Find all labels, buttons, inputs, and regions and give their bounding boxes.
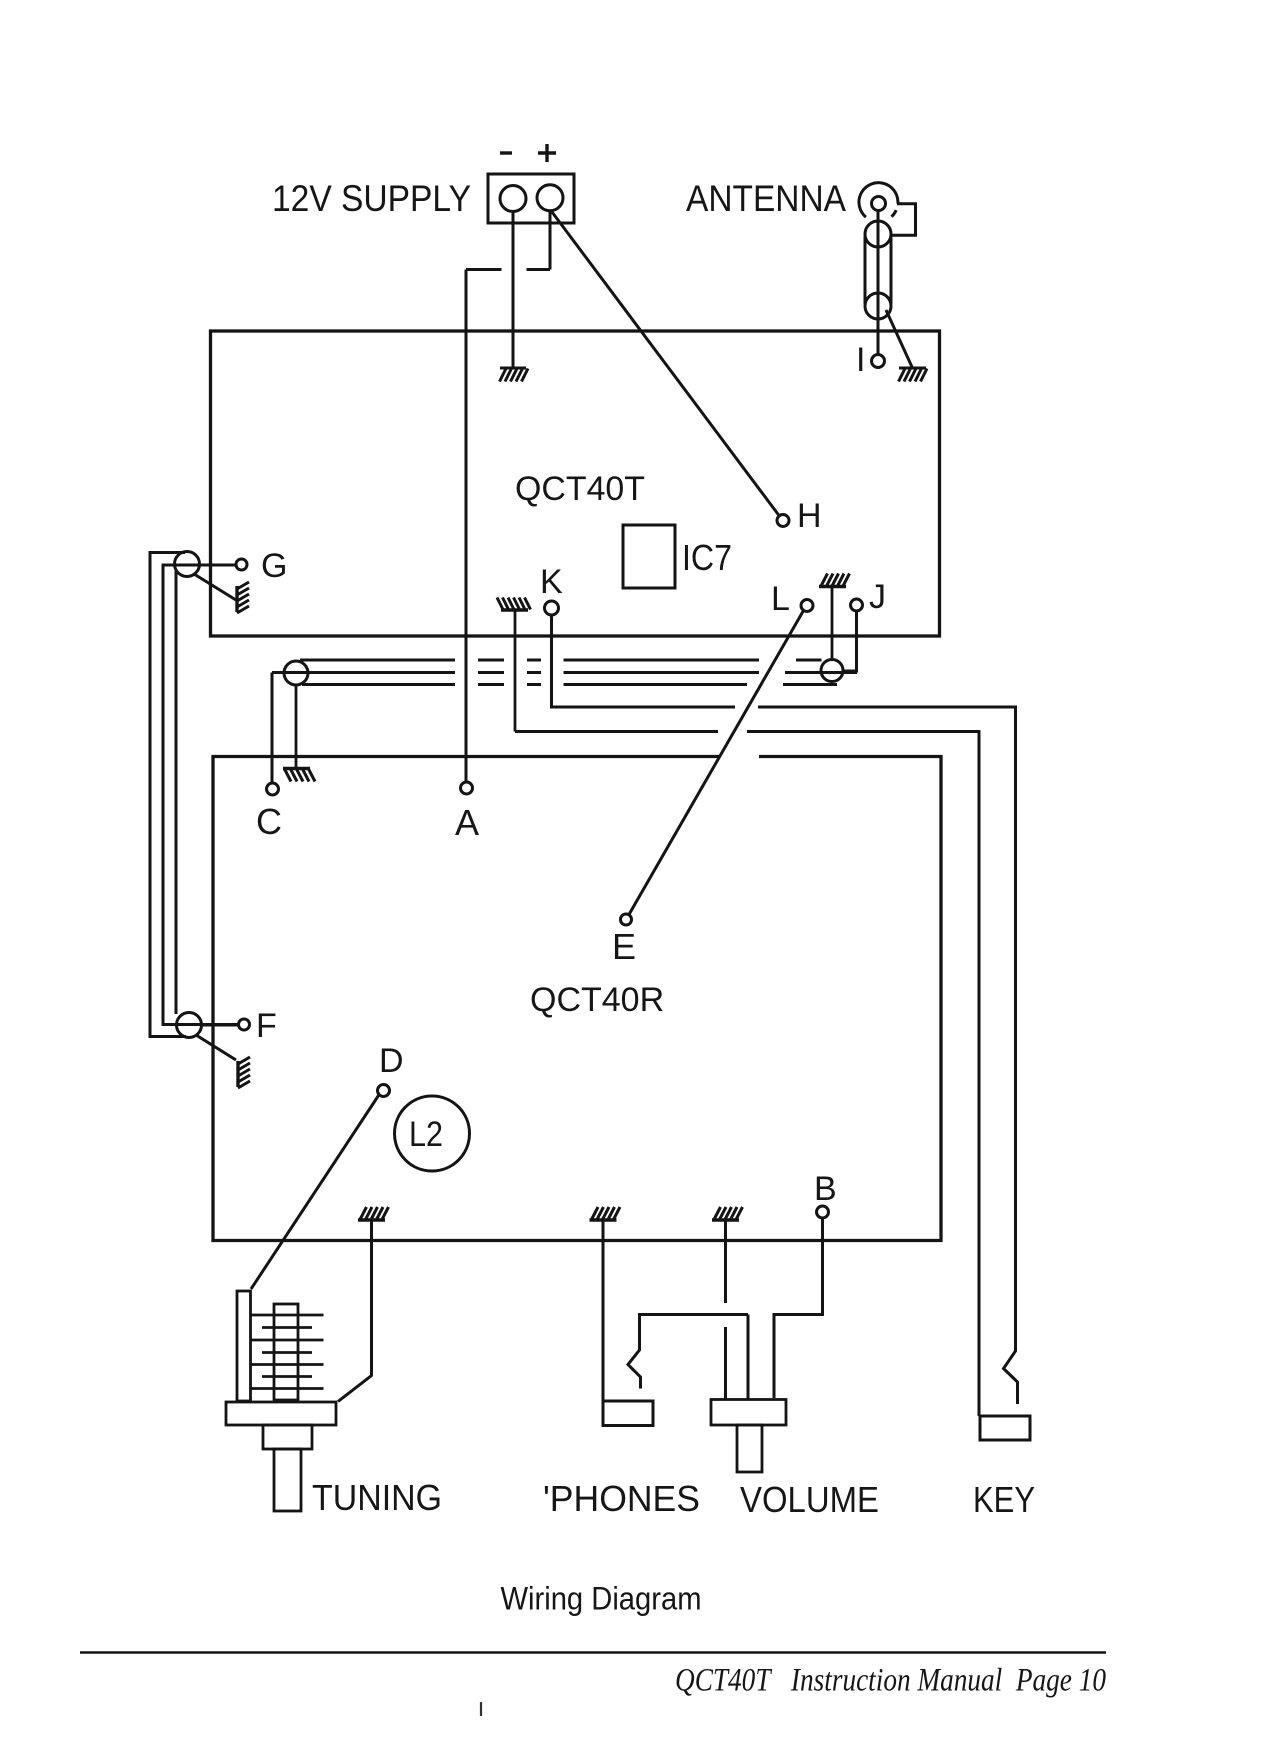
svg-text:TUNING: TUNING — [312, 1477, 442, 1518]
wire bubble to node F — [202, 1024, 239, 1027]
cable junction bubble at F — [177, 1013, 202, 1038]
interconnect bus line 1 — [300, 659, 822, 662]
ground G7 on QCT40R (phones) — [590, 1207, 621, 1220]
wire bus to node C — [271, 673, 274, 784]
ground G3 near K — [497, 598, 531, 732]
node K — [545, 601, 559, 615]
svg-text:QCT40T Instruction Manual P: QCT40T Instruction Manual Page 10 — [675, 1663, 1106, 1699]
node L — [801, 600, 813, 612]
cable junction bubble at G — [175, 552, 200, 577]
svg-text:J: J — [869, 578, 886, 616]
svg-text:QCT40T: QCT40T — [515, 470, 645, 508]
chassis lug at F — [196, 1035, 250, 1088]
svg-text:KEY: KEY — [973, 1479, 1035, 1520]
interconnect bus line 2 — [272, 671, 857, 674]
wire node D to tuning capacitor — [251, 1096, 379, 1290]
cable wires G to F — [150, 553, 186, 1037]
phones switch contact — [628, 1315, 748, 1389]
svg-text:L2: L2 — [409, 1115, 443, 1154]
svg-text:E: E — [612, 926, 636, 967]
interconnect bus line 3 — [302, 683, 837, 686]
svg-text:Wiring Diagram: Wiring Diagram — [501, 1581, 702, 1617]
node C — [267, 783, 279, 795]
svg-text:'PHONES: 'PHONES — [543, 1478, 700, 1519]
node I — [872, 355, 885, 368]
svg-text:I: I — [856, 341, 865, 379]
node B — [817, 1206, 829, 1218]
wire K-ground to KEY sleeve — [515, 732, 979, 1417]
svg-text:A: A — [455, 802, 479, 843]
svg-text:D: D — [379, 1042, 404, 1080]
antenna connector — [859, 183, 916, 355]
wire supply plus to node A — [466, 211, 550, 782]
svg-text:H: H — [797, 497, 822, 535]
wire node L to node E — [629, 611, 804, 915]
svg-text:12V SUPPLY: 12V SUPPLY — [272, 178, 471, 219]
wire antenna shield to ground — [886, 310, 912, 367]
svg-text:VOLUME: VOLUME — [740, 1479, 879, 1520]
svg-text:QCT40R: QCT40R — [530, 981, 664, 1019]
node H — [777, 515, 789, 527]
key jack J2 — [980, 1416, 1030, 1440]
svg-text:B: B — [814, 1170, 837, 1208]
wire volume wiper — [747, 1315, 750, 1399]
svg-text:F: F — [256, 1007, 277, 1045]
wire supply plus to node H — [552, 212, 779, 516]
footer rule — [80, 1651, 1106, 1654]
svg-text:G: G — [261, 547, 287, 585]
phones jack J1 — [603, 1401, 653, 1426]
wire ground to tuning frame — [338, 1220, 372, 1402]
wire ground to phones sleeve — [602, 1220, 605, 1401]
wire node J to bus junction — [844, 611, 857, 671]
volume pot VR1 — [711, 1400, 786, 1473]
wire ground to volume left terminal — [724, 1220, 727, 1399]
node J — [851, 599, 863, 611]
ground G1 (supply minus) — [500, 368, 529, 382]
wire node B to volume — [774, 1218, 823, 1398]
ground G2 (antenna) — [899, 368, 928, 382]
chassis lug at G — [194, 574, 249, 613]
inductor L2 — [395, 1096, 470, 1171]
svg-text:IC7: IC7 — [682, 537, 732, 578]
junction bubble left — [284, 661, 308, 685]
IC U1 outline — [623, 525, 675, 588]
supply plus mark — [538, 144, 556, 162]
tuning capacitor VC1 — [226, 1291, 336, 1511]
module box QCT40T — [211, 331, 940, 636]
node F — [239, 1019, 250, 1030]
wire bubble to node G — [200, 564, 237, 567]
ground G8 on QCT40R (volume) — [712, 1207, 743, 1220]
node A — [461, 782, 473, 794]
svg-text:L: L — [771, 580, 790, 618]
svg-text:C: C — [256, 801, 282, 842]
junction bubble right — [821, 660, 843, 682]
svg-text:K: K — [540, 563, 563, 601]
wire supply minus to ground — [512, 212, 515, 368]
node D — [378, 1085, 390, 1097]
module box QCT40R — [213, 757, 941, 1241]
ground G4 near L and J — [819, 574, 850, 660]
supply minus mark — [500, 151, 512, 154]
scan artifact tick — [480, 1702, 482, 1716]
12V supply connector CN1 — [488, 174, 574, 223]
node G — [236, 559, 247, 570]
ground G5 near C — [283, 685, 315, 782]
node E — [621, 914, 632, 925]
svg-text:ANTENNA: ANTENNA — [686, 178, 846, 219]
wire node K to KEY tip (with key switch) — [552, 616, 1018, 1405]
ground G6 on QCT40R (tuning) — [358, 1207, 389, 1220]
